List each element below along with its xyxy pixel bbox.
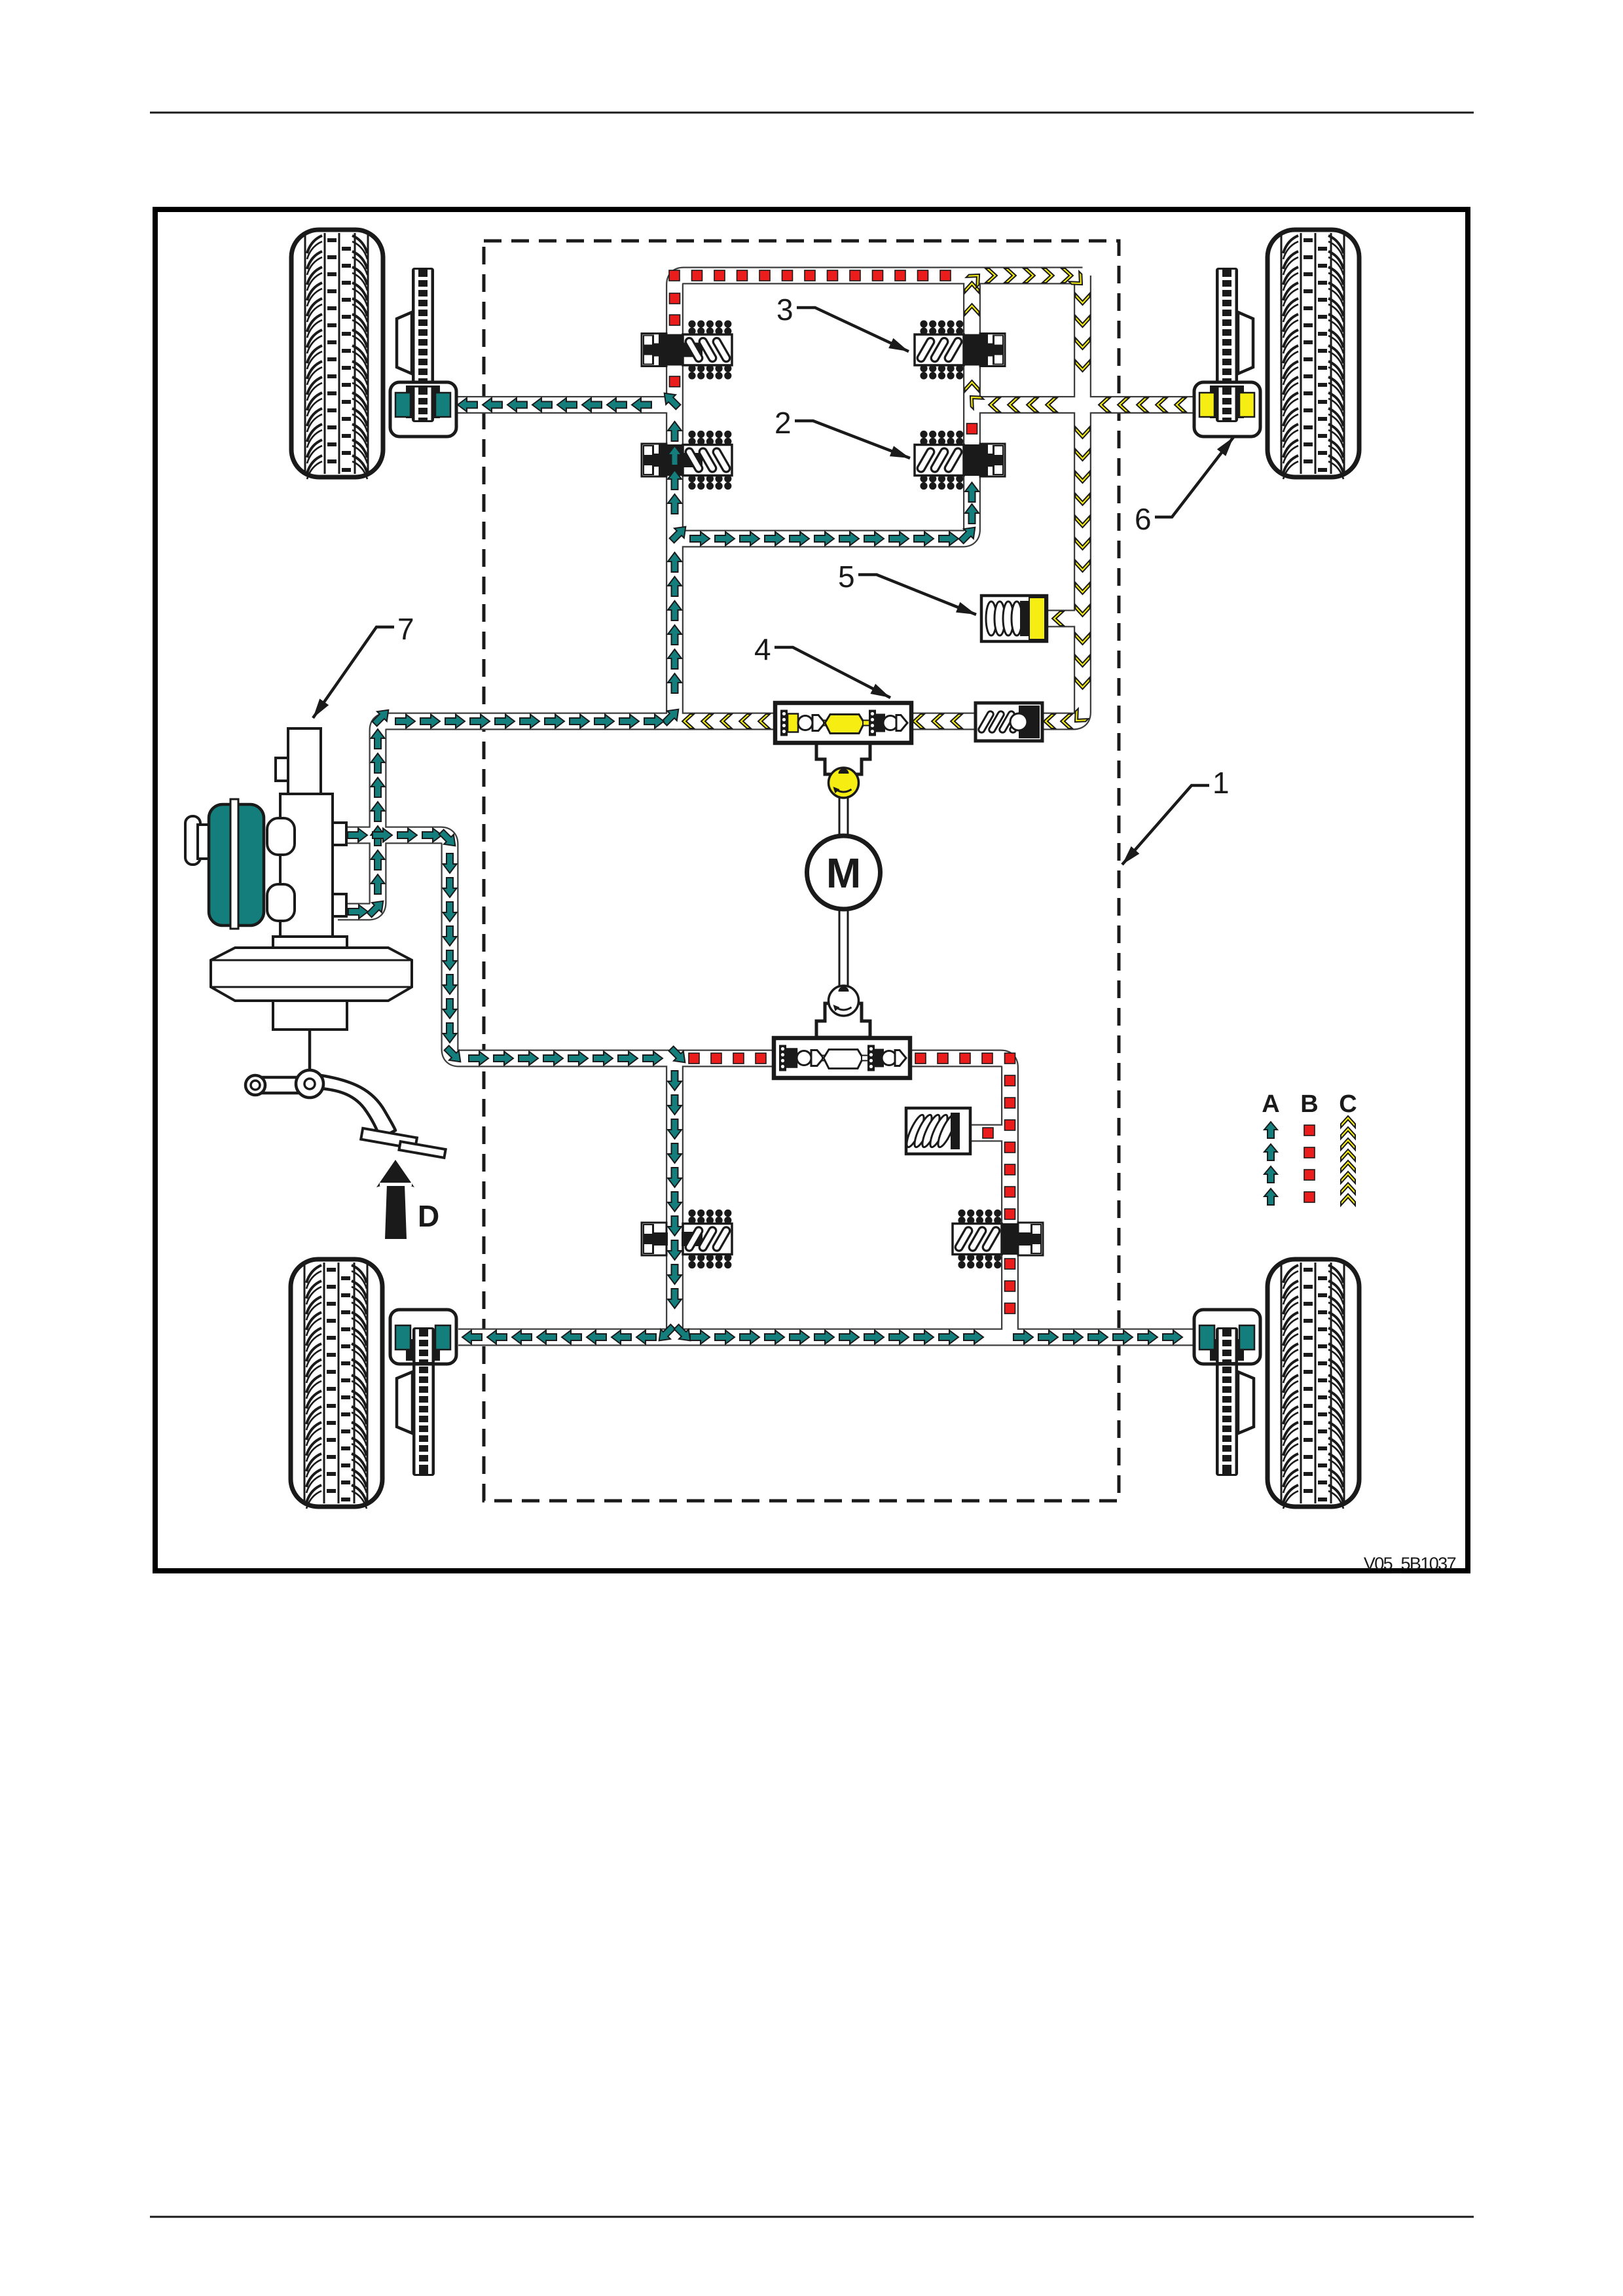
front-right hub plate: [1238, 312, 1253, 374]
flow markers C: front-right caliper line: [965, 391, 1186, 412]
front-left caliper: [390, 382, 456, 437]
pipe: rear accumulator stub (wall): [972, 1124, 1008, 1142]
solenoid valve rear-right: [953, 1210, 1043, 1268]
rear circuit pump: [774, 1038, 910, 1078]
label 7: [308, 612, 414, 721]
rear pump eccentric: [829, 986, 859, 1016]
rear-right hub plate: [1238, 1372, 1254, 1433]
label 1 (hydraulic unit): [1118, 766, 1230, 869]
svg-text:B: B: [1300, 1090, 1318, 1118]
flow arrows A: rear axle caliper line: [462, 1331, 1182, 1344]
pipe: master cylinder secondary supply (wall): [338, 835, 1010, 1337]
front pump eccentric: [829, 768, 859, 798]
brake fluid reservoir: [185, 799, 295, 929]
pipe: front-right caliper line (bore): [972, 397, 1194, 412]
solenoid valve rear-left: [642, 1210, 732, 1268]
top rule: [150, 112, 1474, 114]
svg-text:2: 2: [775, 406, 792, 440]
front-left brake disc: [412, 268, 434, 419]
pipe: yellow return right column (bore): [675, 276, 1083, 721]
pipe: HCU inner loop (bottom run + right column) (bore): [675, 276, 972, 539]
rear-left hub plate: [397, 1372, 412, 1433]
flow arrows A: master cylinder secondary supply: [348, 827, 690, 1067]
pipe: front-left caliper line (bore): [456, 397, 678, 412]
rear pump drive housing: [816, 1003, 870, 1037]
pipe: accumulator 5 stub (bore): [1047, 611, 1080, 626]
svg-text:M: M: [826, 850, 861, 897]
svg-text:7: 7: [397, 612, 414, 646]
rear-right brake disc: [1216, 1325, 1238, 1476]
pipe: rear axle caliper line (wall): [458, 1329, 1193, 1346]
front-left tire: [291, 230, 383, 479]
pipe: front-right caliper line (wall): [972, 396, 1194, 414]
legend A: [1262, 1090, 1279, 1205]
solenoid outlet valve front-left: [642, 431, 732, 490]
pipe: HCU left column + top red run (wall): [675, 276, 1083, 721]
pipe: rear teal down column (wall): [666, 1055, 684, 1337]
label 2: [775, 406, 912, 463]
front-right brake disc: [1216, 268, 1238, 419]
front-right tire: [1267, 230, 1359, 479]
pipe: master cylinder primary supply (bore): [338, 721, 678, 912]
pipe: rear accumulator stub (bore): [972, 1126, 1008, 1141]
legend C: [1339, 1090, 1357, 1206]
flow markers B: HCU top run and columns: [669, 270, 977, 434]
flow markers C: return line to pump: [682, 293, 1090, 728]
pipe: rear axle caliper line (bore): [458, 1330, 1193, 1345]
flow arrows A: HCU left column: [660, 422, 691, 728]
label 4: [754, 632, 893, 703]
svg-text:D: D: [418, 1199, 439, 1233]
figure frame: [155, 209, 1468, 1571]
flow arrows A: HCU inner loop: [690, 482, 980, 546]
legend B: [1300, 1090, 1318, 1202]
pipe: master cylinder primary supply (wall): [338, 721, 678, 912]
pipe: master cylinder secondary supply (bore): [338, 835, 1010, 1337]
rear-right tire: [1267, 1259, 1359, 1509]
brake pedal: [246, 1070, 446, 1158]
motor shaft lower: [839, 908, 848, 987]
svg-text:5: 5: [838, 560, 855, 594]
flow arrows A: master cylinder primary supply: [348, 705, 664, 920]
rear-right caliper: [1194, 1310, 1260, 1364]
rear-left tire: [291, 1259, 382, 1509]
flow markers C: HCU right column and top run: [965, 268, 1087, 392]
pipe: yellow return right column (wall): [675, 276, 1083, 721]
rear accumulator: [903, 1108, 970, 1154]
svg-text:A: A: [1262, 1090, 1279, 1118]
svg-text:6: 6: [1135, 502, 1152, 536]
svg-text:1: 1: [1213, 766, 1230, 800]
svg-text:4: 4: [754, 632, 771, 666]
master cylinder outlet ports: [333, 823, 346, 916]
vacuum booster: [211, 937, 412, 1030]
solenoid inlet valve front-left: [642, 320, 732, 379]
label 3: [776, 293, 911, 357]
rear-left caliper: [390, 1310, 456, 1364]
flow arrows A: front-left caliper line: [458, 388, 683, 412]
svg-text:V05_5B1037: V05_5B1037: [1364, 1554, 1456, 1573]
electric motor M: [807, 836, 881, 909]
pipe: HCU inner loop (bottom run + right column) (wall): [675, 276, 972, 539]
accumulator 5 (front): [981, 596, 1047, 641]
pipe: rear teal down column (bore): [667, 1055, 682, 1337]
pedal force arrow D: [376, 1160, 439, 1239]
rear-left brake disc: [412, 1325, 435, 1476]
pipe: HCU left column + top red run (bore): [675, 276, 1083, 721]
pump 4 (front circuit): [775, 703, 911, 743]
dashed boundary of hydraulic unit (1): [484, 241, 1119, 1501]
damper / attenuator front: [976, 703, 1042, 741]
master cylinder body (7): [276, 728, 333, 937]
flow markers B: rear circuit: [689, 1053, 1015, 1314]
svg-text:C: C: [1339, 1090, 1357, 1118]
drawing number: [1364, 1554, 1456, 1573]
front-left hub plate: [397, 312, 412, 374]
pipe: accumulator 5 stub (wall): [1047, 610, 1080, 628]
label 5: [838, 560, 978, 620]
solenoid valve 2 (front-right outlet): [915, 431, 1005, 490]
label 6: [1135, 434, 1238, 536]
solenoid valve 3 (front-right inlet): [915, 320, 1005, 379]
pipe: front-left caliper line (wall): [456, 396, 678, 414]
bottom rule: [150, 2216, 1474, 2218]
motor shaft upper: [839, 795, 848, 838]
front pump drive housing: [816, 743, 870, 774]
front-right caliper (6): [1194, 382, 1260, 437]
flow arrows A: rear down column: [654, 1071, 695, 1346]
pedal pushrod: [308, 1030, 312, 1080]
svg-text:3: 3: [776, 293, 793, 327]
